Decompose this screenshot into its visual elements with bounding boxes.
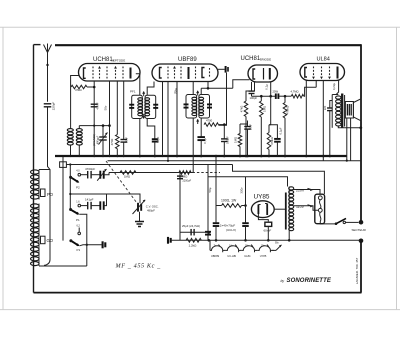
wire R5 top (260, 96, 262, 101)
node j8 (176, 155, 179, 158)
terminal PU (102, 241, 104, 248)
wire trimmer to ground (139, 212, 141, 222)
coil tap box PO (41, 189, 46, 197)
heater filament UBF89 (210, 246, 226, 252)
switch F1 contact (78, 232, 81, 235)
wire U2 pin2 down (176, 82, 178, 157)
svg-text:20nF: 20nF (249, 124, 253, 130)
wire R8 leads (268, 125, 270, 133)
capacitor C-218 100pF (221, 138, 228, 140)
trimmer CA (99, 171, 101, 179)
svg-text:220: 220 (323, 105, 327, 110)
wire selector out (320, 221, 335, 224)
wire U1 side lead (71, 76, 79, 88)
wire transformer bottom (288, 231, 290, 240)
IF transformer MF1 left loop (132, 95, 143, 118)
switch P1 arm (70, 209, 78, 214)
IF transformer MF2 right loop (199, 95, 210, 119)
wire R9 right (242, 205, 246, 207)
node F1 junction (86, 244, 88, 246)
capacitor 4700pF (87, 171, 89, 179)
capacitor C-ant 220pF (44, 103, 52, 105)
resistor R5 1M (260, 101, 264, 117)
tube U2 grid 4 (195, 67, 197, 80)
switch P2 contact (78, 173, 81, 176)
wire trimmer up (104, 173, 109, 175)
node j30 (244, 239, 247, 242)
svg-text:UBF89: UBF89 (211, 254, 220, 258)
wire C-277 foot (276, 142, 278, 156)
resistor R8 470k (267, 133, 271, 150)
tube U1 cathode (84, 68, 86, 78)
wire MF1 pin down B (147, 119, 155, 140)
wire det out line (252, 95, 276, 97)
resistor R10 1,2k (186, 238, 201, 242)
terminal input (167, 237, 169, 244)
node j29 (215, 239, 218, 242)
output transformer primary (336, 96, 341, 99)
node j31 (208, 239, 211, 242)
tube U2 dash 5 (209, 68, 211, 78)
capacitor MF1 left (129, 104, 134, 106)
page edge top (0, 26, 400, 28)
wire diode down (218, 73, 226, 126)
svg-text:220V: 220V (296, 189, 305, 193)
wire rectifier branch (208, 176, 246, 178)
tube U4 grid 3 (329, 67, 331, 76)
wire mains bottom line (171, 239, 359, 241)
wire C-201 foot (200, 140, 202, 156)
output transformer core (341, 94, 343, 128)
svg-text:UBF89: UBF89 (178, 57, 197, 63)
svg-text:UL84: UL84 (244, 254, 251, 258)
node bus dots (93, 155, 95, 157)
tube U4 UL84 (300, 64, 345, 81)
wire tap 220V (294, 190, 321, 195)
svg-text:490µµF: 490µµF (97, 135, 100, 144)
wire MF1 sec top (147, 82, 154, 96)
trimmer C.V. OSC (137, 203, 139, 212)
slug arrow MF2 top (197, 91, 199, 96)
node j19 (284, 155, 287, 158)
wire C3 leads (123, 81, 125, 140)
node pin1 foot (161, 155, 163, 157)
capacitor 141pF (87, 202, 89, 210)
wire padder up (104, 194, 107, 206)
coil MF1 secondary (145, 98, 150, 101)
node j7 (154, 155, 157, 158)
wire U1 cathode down (93, 81, 95, 156)
node j9 (200, 155, 203, 158)
coil L-PO ferrite antenna (31, 170, 40, 174)
switch P1 contact (78, 204, 81, 207)
tube U1 grid 1 (92, 67, 94, 80)
tube U1 grid 4 (115, 67, 117, 80)
wire bias top line (180, 231, 209, 233)
heater filament UL84 (242, 246, 258, 252)
wire U5 cathode down (258, 214, 268, 221)
wire C-331 top (330, 101, 332, 109)
wire switch to terminal (346, 221, 359, 223)
tube U2 grid 1 (167, 67, 169, 80)
tube U2 anode (188, 67, 190, 79)
coil tap box GO (41, 236, 46, 244)
wire R2 foot (116, 149, 118, 156)
node j11 (223, 123, 226, 126)
trimmer C.V. OSC arrow (133, 200, 146, 214)
svg-text:0,1µ: 0,1µ (265, 84, 269, 90)
node j12 (223, 155, 226, 158)
node j33 (288, 239, 291, 242)
wire cap-cap (91, 205, 100, 207)
wire heater tail (272, 249, 276, 251)
wire det out line b (279, 95, 292, 97)
tube U1 grid 5 (122, 67, 124, 80)
svg-text:50v: 50v (104, 105, 108, 110)
wire MF2 prim bottom (192, 118, 194, 172)
tube U2 grid 3 (180, 67, 182, 80)
wire C-331 foot (329, 111, 331, 156)
resistor R7 1M (238, 134, 242, 147)
wire antenna lead (47, 53, 49, 102)
capacitor C-electro2 (242, 222, 249, 224)
tube U3 grid (263, 68, 265, 80)
wire MF1 pin down A (139, 119, 141, 157)
svg-text:1MΩ: 1MΩ (124, 175, 130, 179)
node j18 (284, 95, 287, 98)
svg-text:P1: P1 (76, 218, 80, 222)
wire U1 g1 down (109, 81, 111, 156)
capacitor C-electro1 (213, 222, 220, 224)
wire filter drop (215, 156, 217, 206)
wire C-155 foot (154, 142, 156, 156)
svg-text:UL84: UL84 (317, 57, 330, 63)
wire switch shaft (69, 165, 71, 210)
capacitor C-25uF (190, 229, 192, 236)
tube U5 cathode (257, 205, 259, 215)
svg-text:2×40+70µF: 2×40+70µF (220, 223, 236, 227)
capacitor padder (99, 201, 101, 210)
node j15 (260, 95, 263, 98)
node j6 (139, 155, 142, 158)
tube U1 grid 3 (106, 67, 108, 80)
selector contact top (318, 196, 322, 200)
wire rectifier net upper (207, 165, 209, 241)
wire P1 tip right (79, 214, 87, 266)
heater filament UY85 (258, 246, 274, 252)
node j32 (208, 231, 211, 234)
tube U3 UCH81 triode (248, 65, 278, 82)
wire R7-C247 link (240, 123, 248, 125)
svg-text:220pF: 220pF (52, 102, 56, 111)
node j24 (329, 155, 332, 158)
svg-text:10nF: 10nF (125, 137, 129, 143)
node j25 (359, 126, 362, 129)
wire mains line L1 corner (233, 165, 325, 195)
wire AVC line (109, 172, 193, 174)
svg-text:MF _ 455 Kc _: MF _ 455 Kc _ (115, 263, 162, 270)
svg-text:47kΩ: 47kΩ (239, 106, 243, 113)
capacitor MF2 left (184, 103, 189, 105)
frame top-left bracket (34, 44, 41, 46)
svg-text:47kΩ: 47kΩ (75, 88, 82, 92)
capacitor C-AVC 2200pF (177, 175, 183, 177)
wire AVC line dashed tail (193, 172, 221, 174)
fuse box (60, 162, 67, 168)
resistor R-AVC2 2,2M (179, 171, 191, 175)
wire ACC leads (102, 126, 104, 137)
node filter top (215, 155, 218, 158)
capacitor C-electroA (205, 231, 211, 233)
capacitor C-247 20nF (244, 126, 251, 128)
page edge bottom (0, 309, 400, 311)
resistor R-AVC1 1M (120, 171, 136, 175)
svg-text:4.0: 4.0 (76, 170, 80, 173)
wire U1 anode out (136, 74, 140, 95)
wire U3 cathode down (246, 82, 255, 101)
IF transformer MF2 left loop (186, 95, 197, 119)
voltage selector body (315, 194, 325, 224)
tube U1 UCH81 heptode (79, 64, 141, 82)
svg-text:4,7MΩ: 4,7MΩ (291, 89, 299, 93)
capacitor C-331 (327, 107, 333, 109)
node j21 (246, 155, 249, 158)
svg-text:110V: 110V (296, 205, 305, 209)
capacitor C-201 0,1uF (197, 136, 205, 138)
svg-text:0,22µ: 0,22µ (332, 83, 336, 90)
wire R3 to diode (218, 124, 226, 126)
wire R6 foot (284, 118, 286, 156)
tube U5 UY85 (251, 201, 274, 218)
wire C-electro1 leads (215, 206, 217, 224)
resistor R-coup 4,7M (291, 94, 303, 98)
wire osc2 top (78, 126, 80, 129)
svg-text:470Ω: 470Ω (110, 139, 114, 146)
wire coupling jog (269, 124, 271, 126)
wire heater line (108, 160, 362, 162)
svg-text:470kΩ: 470kΩ (286, 106, 290, 114)
terminal diode T-bar (225, 66, 227, 73)
coil MF2 primary (192, 97, 197, 100)
wire C-electro2 leads (245, 206, 247, 224)
svg-text:6,2: 6,2 (77, 224, 81, 227)
capacitor C3 10nF (120, 139, 127, 141)
wire C-218 leads (223, 125, 225, 139)
wire speaker bottom A (346, 118, 348, 161)
svg-text:(UCLX): (UCLX) (226, 228, 236, 232)
wire antenna to coil (44, 107, 50, 266)
speaker HP (345, 102, 353, 119)
svg-text:0,1µF: 0,1µF (278, 127, 282, 134)
wire AVC bypass drop (179, 173, 181, 241)
svg-text:4700pF: 4700pF (85, 167, 95, 171)
wire MF2 sec top up (200, 88, 202, 94)
coil MF2 secondary (199, 97, 204, 100)
svg-text:GO: GO (47, 238, 54, 243)
coil L-osc2 (76, 129, 82, 132)
svg-text:TRIODE: TRIODE (260, 57, 272, 61)
wire osc coil feet (70, 145, 72, 156)
svg-text:50µ: 50µ (208, 187, 212, 192)
selector link (319, 200, 321, 221)
ground (135, 222, 144, 227)
svg-text:by: by (281, 279, 285, 283)
wire C-100pF leads (251, 82, 253, 91)
node j17 (269, 95, 272, 98)
svg-text:1MΩ: 1MΩ (233, 137, 237, 143)
tube U5 anode (266, 204, 268, 216)
node j28 (267, 239, 270, 242)
tube U1 anode (130, 68, 132, 79)
svg-text:0,1µ: 0,1µ (203, 138, 207, 144)
wire osc line upper (70, 194, 140, 203)
heater tail arrow (276, 245, 282, 251)
trimmer C.V. ACC (99, 136, 107, 138)
page edge left (2, 27, 4, 309)
coil MF1 primary (138, 98, 143, 101)
terminal SECTEUR 2 (359, 239, 364, 244)
wire coupling corner (304, 87, 317, 96)
svg-text:4,7nF: 4,7nF (96, 102, 100, 110)
node j26 (346, 160, 348, 162)
switch F1 arm (71, 241, 79, 246)
node antenna junction (46, 64, 48, 66)
wire U2 pin1 down (162, 82, 164, 157)
wire B+ top rail (55, 44, 361, 46)
node UL84 cathode bus (305, 155, 308, 158)
wire plate coupling down (270, 96, 272, 125)
svg-text:SECTEUR: SECTEUR (352, 228, 367, 232)
svg-text:P2: P2 (76, 185, 80, 189)
wire R7 leads (239, 124, 241, 134)
resistor R1 47k (71, 85, 87, 89)
node j16 (260, 155, 263, 158)
wire F1 to terminal (80, 245, 102, 246)
wire osc feed line (79, 125, 109, 127)
svg-text:100pF: 100pF (250, 96, 258, 100)
slug arrow MF2 bottom (197, 120, 199, 125)
capacitor C-60mF (265, 222, 272, 226)
wire heater lead left (209, 240, 211, 250)
wire rectifier net right (246, 177, 288, 187)
svg-text:PF1: PF1 (130, 90, 136, 94)
wire MF2 sec bottom (200, 118, 202, 137)
svg-text:25W: 25W (273, 89, 279, 93)
wire UL84 cathode to bus (305, 81, 307, 157)
capacitor C-100pF grid (249, 90, 255, 92)
switch mains (335, 222, 338, 225)
wire band line (81, 174, 88, 176)
svg-text:1MΩ: 1MΩ (263, 106, 267, 112)
node shaft top (69, 163, 71, 165)
svg-text:141pF: 141pF (85, 198, 94, 202)
trimmer CA arrow (97, 169, 106, 181)
resistor R3 47k (204, 123, 218, 127)
wire R6 top (284, 96, 286, 102)
node j27 (244, 204, 247, 207)
transformer winding (289, 187, 294, 190)
wire R9 left (216, 205, 222, 207)
heater filament UCH81 (226, 246, 242, 252)
tube U1 grid 2 (99, 67, 101, 80)
node j4 (69, 155, 71, 157)
node j5 (78, 155, 80, 157)
node osc line (69, 193, 71, 195)
slug arrow MF1 bottom (143, 114, 145, 119)
node j3 (102, 124, 105, 127)
svg-text:68pF: 68pF (156, 136, 160, 142)
capacitor MF1 right (153, 104, 158, 106)
wire U3 anode down (270, 82, 272, 96)
wire U4 g2 down (322, 81, 324, 161)
capacitor C-155 1nF (152, 138, 158, 140)
svg-text:70kc: 70kc (174, 87, 178, 94)
wire tap 110V (294, 206, 319, 211)
resistor R4 47k (244, 101, 248, 117)
wire ground bus (55, 155, 347, 157)
svg-text:25µF (24,7kΩ): 25µF (24,7kΩ) (182, 224, 200, 228)
wire primary bottom to rail (338, 126, 360, 128)
node pin1b foot (167, 160, 169, 162)
output transformer left wire (332, 94, 338, 96)
svg-text:P1: P1 (77, 248, 81, 252)
switch P2 arm (70, 177, 78, 182)
frame bottom border (34, 292, 362, 294)
frame left border (33, 45, 35, 293)
node j20 (239, 155, 242, 158)
svg-text:UY85: UY85 (254, 194, 270, 201)
svg-text:100pF: 100pF (226, 136, 230, 144)
tube U3 cathode (253, 69, 255, 79)
node j2 (108, 124, 111, 127)
wire R5 foot (260, 117, 262, 156)
svg-text:LAGNIER. 700. 457: LAGNIER. 700. 457 (355, 257, 359, 284)
tube U4 grid 1 (313, 67, 315, 76)
antenna (44, 44, 52, 53)
node j14 (245, 155, 248, 158)
svg-text:320v: 320v (240, 187, 244, 194)
svg-text:2200 pF: 2200 pF (183, 179, 192, 182)
wire C-277 top (269, 125, 277, 139)
terminal SECTEUR 1 (359, 220, 364, 225)
transformer core (285, 193, 287, 230)
tube U2 diode plate (202, 68, 205, 78)
wire U2 diode lead (218, 68, 225, 70)
tube U4 anode (337, 67, 339, 79)
wire C-247 leads (247, 121, 249, 127)
node j10 (207, 87, 210, 90)
wire cap-trimmer (91, 174, 100, 176)
selector contact mid (318, 208, 322, 212)
wire U2 anode down (192, 82, 194, 95)
resistor R6 470k (283, 103, 287, 119)
svg-text:PO: PO (47, 192, 54, 197)
tube U3 anode (269, 68, 271, 80)
wire C-60mF foot (267, 226, 269, 240)
wire tuning gang dashed link (106, 161, 138, 205)
wire R1 right (87, 86, 94, 88)
node j1 (93, 86, 96, 89)
wire U4 anode down (336, 81, 338, 95)
wire mains right rail lower (360, 242, 362, 293)
slug arrow MF1 top (143, 92, 145, 97)
tube U4 grid 2 (321, 67, 323, 76)
svg-text:UY85: UY85 (260, 254, 267, 258)
svg-text:SONORINETTE: SONORINETTE (287, 278, 332, 284)
tube U2 grid 2 (174, 67, 176, 80)
wire F1 contact lead (78, 228, 80, 233)
wire speaker bottom B (350, 118, 352, 161)
